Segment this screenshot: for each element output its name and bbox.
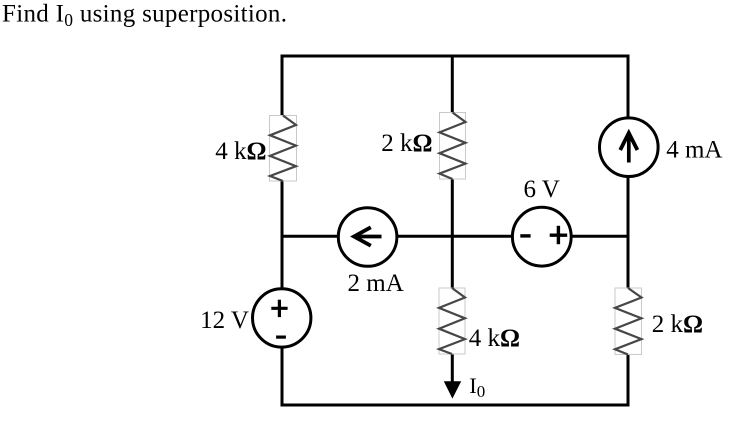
current source I2 4mA (right branch, arrow pointing up)	[600, 118, 659, 177]
current source I1 2mA (mid rail, arrow pointing left)	[338, 208, 397, 267]
svg-text:4 mA: 4 mA	[666, 136, 722, 163]
resistor R3 4k ohm (middle branch bottom)	[439, 288, 465, 354]
svg-text:4 kΩ: 4 kΩ	[215, 138, 266, 165]
svg-text:2 mA: 2 mA	[348, 270, 404, 297]
wire: right branch middle (4mA source to R4, through mid-rail node)	[627, 177, 630, 289]
wire: mid rail segment C (6V source to right branch)	[572, 235, 629, 238]
voltage source V2 12V (left branch, plus top minus bottom)	[253, 289, 311, 347]
resistor R4 2k ohm (right branch bottom)	[615, 288, 642, 355]
svg-text:2 kΩ: 2 kΩ	[652, 311, 703, 338]
wire: left branch lower (12V source to bottom rail)	[281, 348, 284, 407]
wire: top rail	[281, 55, 630, 58]
resistor R1 4k ohm (left branch)	[270, 116, 297, 182]
svg-text:2 kΩ: 2 kΩ	[381, 130, 432, 157]
svg-text:12 V: 12 V	[200, 307, 249, 334]
voltage source V1 6V (mid rail, minus left plus right)	[512, 207, 571, 266]
wire: middle branch middle (R2 to R3, through mid-rail node)	[451, 179, 454, 290]
wire: left branch upper (top rail to R1)	[281, 55, 284, 118]
wire: right branch lower (R4 to bottom rail)	[627, 354, 630, 407]
wire: left branch middle (R1 to 12V source, through mid-rail node)	[281, 180, 284, 289]
resistor R2 2k ohm (middle branch top)	[440, 113, 466, 180]
svg-text:Find I0 using superposition.: Find I0 using superposition.	[2, 1, 287, 31]
arrow: I0 current direction (filled, pointing down into bottom rail)	[444, 381, 461, 398]
wire: middle branch upper (top rail to R2)	[451, 55, 454, 115]
wire: right branch upper (top rail to 4mA source)	[627, 55, 630, 118]
svg-text:4 kΩ: 4 kΩ	[469, 325, 520, 352]
wire: middle branch lower (R3 to I0 arrow)	[451, 353, 454, 388]
svg-text:6 V: 6 V	[524, 176, 560, 203]
wire: mid rail segment A (left branch to 2mA source)	[282, 235, 337, 238]
wire: bottom rail	[281, 404, 630, 407]
svg-text:I0: I0	[469, 373, 485, 401]
wire: mid rail segment B (2mA source to 6V source, through middle node)	[398, 235, 513, 238]
